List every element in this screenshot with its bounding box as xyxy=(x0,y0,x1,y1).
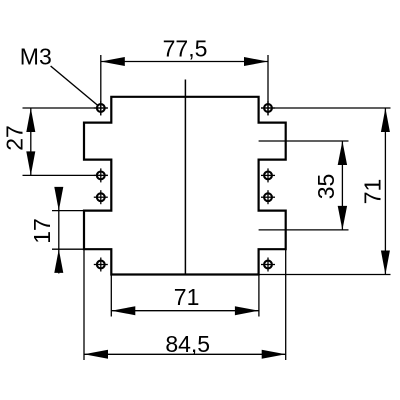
svg-text:M3: M3 xyxy=(20,44,52,70)
svg-text:17: 17 xyxy=(29,218,55,244)
svg-text:71: 71 xyxy=(360,179,386,205)
svg-text:35: 35 xyxy=(313,174,339,200)
svg-text:27: 27 xyxy=(2,125,28,151)
svg-text:77,5: 77,5 xyxy=(163,36,208,62)
svg-text:71: 71 xyxy=(174,284,200,310)
svg-text:84,5: 84,5 xyxy=(165,331,210,357)
